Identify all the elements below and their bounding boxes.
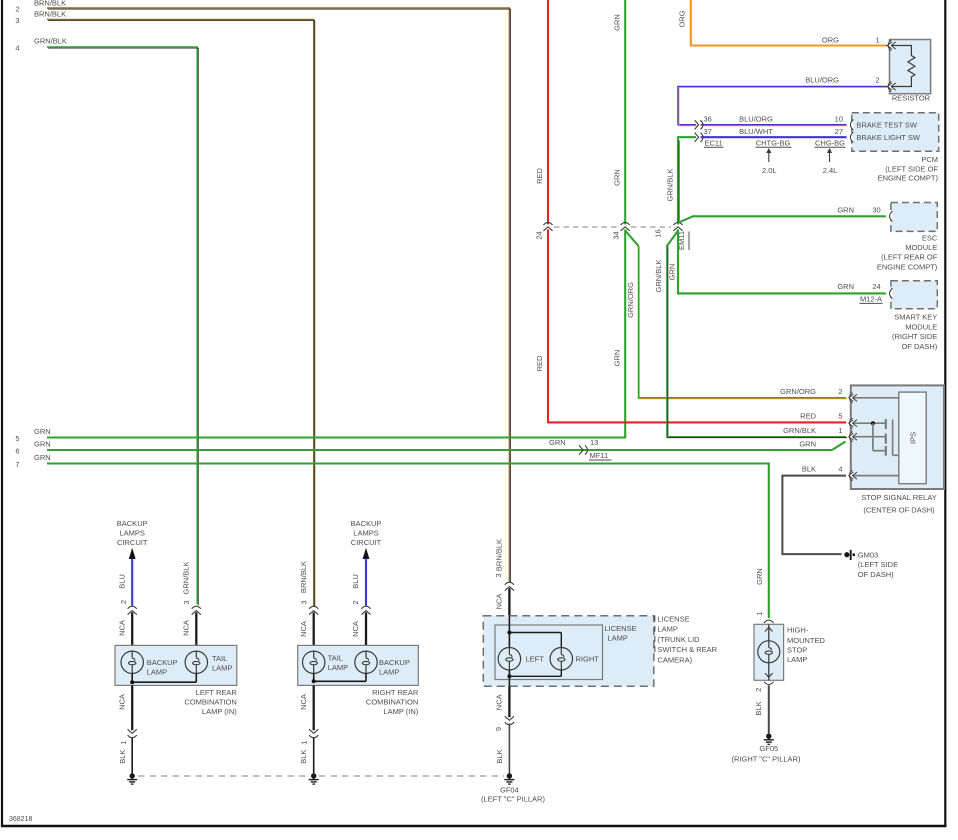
svg-text:LEFT: LEFT [526,654,545,663]
svg-text:9: 9 [494,727,503,731]
svg-text:GRN: GRN [34,453,51,462]
svg-text:LICENSE: LICENSE [605,624,637,633]
svg-text:GRN: GRN [34,427,51,436]
svg-text:NCA: NCA [299,621,308,637]
svg-text:GRN: GRN [612,350,621,367]
svg-text:3: 3 [182,600,191,604]
svg-text:RIGHT REAR: RIGHT REAR [372,688,419,697]
svg-text:BRN/BLK: BRN/BLK [34,10,66,19]
svg-text:2.4L: 2.4L [823,166,838,175]
svg-text:LAMPS: LAMPS [119,529,144,538]
svg-text:GF05: GF05 [759,744,778,753]
svg-text:LAMP: LAMP [787,655,807,664]
svg-text:LAMPS: LAMPS [353,529,378,538]
svg-text:RED: RED [535,168,544,184]
svg-text:EC11: EC11 [705,138,723,147]
svg-text:BLU: BLU [351,574,360,589]
svg-text:MODULE: MODULE [905,322,937,331]
svg-text:ENGINE COMPT): ENGINE COMPT) [877,262,938,271]
svg-text:MODULE: MODULE [905,243,937,252]
svg-text:GRN: GRN [549,438,566,447]
svg-text:NCA: NCA [117,620,126,636]
svg-text:NCA: NCA [299,694,308,710]
svg-text:GRN: GRN [612,14,621,31]
svg-text:NCA: NCA [495,694,504,710]
svg-text:BRN/BLK: BRN/BLK [495,539,504,571]
svg-text:1: 1 [755,611,764,615]
svg-text:GRN: GRN [755,568,764,585]
svg-text:BLU/ORG: BLU/ORG [805,76,839,85]
svg-text:IPS: IPS [909,432,918,444]
svg-text:CAMERA): CAMERA) [658,655,693,664]
svg-text:BLK: BLK [495,749,504,763]
svg-text:LAMP: LAMP [608,634,628,643]
svg-text:LEFT REAR: LEFT REAR [196,688,238,697]
svg-text:BLK: BLK [754,701,763,715]
svg-text:GRN/BLK: GRN/BLK [783,426,816,435]
svg-text:1: 1 [119,741,128,745]
svg-text:3: 3 [299,600,308,604]
svg-text:BLU/WHT: BLU/WHT [739,127,773,136]
svg-text:LAMP: LAMP [147,667,167,676]
svg-text:(LEFT "C" PILLAR): (LEFT "C" PILLAR) [481,794,545,803]
svg-text:2.0L: 2.0L [762,166,777,175]
svg-text:BLK: BLK [118,750,127,764]
svg-text:LICENSE: LICENSE [658,615,690,624]
svg-text:1: 1 [875,36,879,45]
svg-text:COMBINATION: COMBINATION [184,697,236,706]
svg-text:BACKUP: BACKUP [379,658,410,667]
svg-text:BRN/BLK: BRN/BLK [34,0,66,8]
svg-text:2: 2 [119,600,128,604]
svg-text:1: 1 [838,426,842,435]
svg-text:5: 5 [15,434,19,443]
svg-text:SWITCH & REAR: SWITCH & REAR [658,645,718,654]
svg-text:BRAKE TEST SW: BRAKE TEST SW [856,121,917,130]
svg-text:GRN: GRN [837,205,854,214]
svg-text:GRN/ORG: GRN/ORG [626,282,635,318]
svg-text:BACKUP: BACKUP [117,519,148,528]
svg-text:(LEFT SIDE: (LEFT SIDE [858,560,898,569]
svg-text:STOP SIGNAL RELAY: STOP SIGNAL RELAY [861,493,937,502]
svg-text:34: 34 [612,231,621,239]
svg-text:2: 2 [875,76,879,85]
svg-text:GRN/BLK: GRN/BLK [34,37,67,46]
svg-text:6: 6 [15,447,19,456]
svg-text:GRN/ORG: GRN/ORG [780,387,816,396]
svg-text:MF11: MF11 [590,451,609,460]
svg-text:TAIL: TAIL [328,653,343,662]
svg-text:STOP: STOP [787,646,807,655]
svg-text:4: 4 [15,44,19,53]
svg-text:ORG: ORG [822,36,839,45]
svg-text:TAIL: TAIL [212,654,227,663]
svg-text:2: 2 [15,5,19,14]
svg-text:30: 30 [872,205,880,214]
svg-text:BACKUP: BACKUP [351,519,382,528]
svg-text:27: 27 [835,127,843,136]
svg-text:LAMP (IN): LAMP (IN) [383,707,418,716]
svg-text:NCA: NCA [495,594,504,610]
svg-text:RED: RED [800,412,816,421]
svg-text:5: 5 [838,412,842,421]
svg-text:10: 10 [835,115,843,124]
svg-text:CIRCUIT: CIRCUIT [117,538,148,547]
svg-text:2: 2 [754,688,763,692]
svg-text:24: 24 [535,231,544,239]
svg-text:LAMP: LAMP [328,663,348,672]
svg-text:2: 2 [838,387,842,396]
svg-text:16: 16 [654,229,663,237]
svg-text:(RIGHT "C" PILLAR): (RIGHT "C" PILLAR) [732,755,801,764]
svg-text:ORG: ORG [678,10,687,27]
svg-text:LAMP (IN): LAMP (IN) [202,707,237,716]
svg-text:GM03: GM03 [858,551,878,560]
svg-text:1: 1 [299,741,308,745]
svg-text:M12-A: M12-A [860,294,882,303]
svg-text:BRN/BLK: BRN/BLK [299,561,308,593]
svg-text:2: 2 [351,600,360,604]
svg-text:RESISTOR: RESISTOR [892,94,931,103]
svg-text:(LEFT SIDE OF: (LEFT SIDE OF [885,164,938,173]
svg-text:368218: 368218 [9,816,32,823]
svg-text:CHG-BG: CHG-BG [815,138,845,147]
svg-text:(RIGHT SIDE: (RIGHT SIDE [892,332,937,341]
svg-text:(TRUNK LID: (TRUNK LID [658,635,701,644]
svg-text:RIGHT: RIGHT [576,654,600,663]
svg-text:BACKUP: BACKUP [147,658,178,667]
svg-text:BLU: BLU [117,574,126,589]
svg-text:ENGINE COMPT): ENGINE COMPT) [878,174,939,183]
svg-text:24: 24 [872,282,880,291]
svg-text:RED: RED [535,355,544,371]
svg-text:COMBINATION: COMBINATION [366,697,418,706]
svg-text:7: 7 [15,460,19,469]
svg-text:GRN: GRN [612,169,621,186]
svg-text:GRN: GRN [837,282,854,291]
svg-text:MOUNTED: MOUNTED [787,636,825,645]
svg-text:NCA: NCA [351,621,360,637]
svg-text:NCA: NCA [181,620,190,636]
svg-text:GRN/BLK: GRN/BLK [182,562,191,595]
svg-text:LAMP: LAMP [379,667,399,676]
svg-text:GRN/BLK: GRN/BLK [666,169,675,202]
svg-text:CHTG-BG: CHTG-BG [756,138,791,147]
svg-text:PCM: PCM [921,155,938,164]
svg-text:OF DASH): OF DASH) [858,570,894,579]
svg-text:NCA: NCA [117,694,126,710]
svg-text:CIRCUIT: CIRCUIT [351,538,382,547]
svg-text:13: 13 [590,438,598,447]
svg-text:36: 36 [704,115,712,124]
svg-text:GRN: GRN [799,440,816,449]
svg-text:(CENTER OF DASH): (CENTER OF DASH) [863,506,935,515]
svg-text:LAMP: LAMP [658,625,678,634]
svg-text:(LEFT REAR OF: (LEFT REAR OF [881,253,938,262]
svg-text:GRN/BLK: GRN/BLK [654,260,663,293]
svg-text:BLK: BLK [802,465,816,474]
svg-text:4: 4 [838,465,842,474]
svg-text:GF04: GF04 [500,786,519,795]
svg-text:BLK: BLK [299,750,308,764]
svg-text:SMART KEY: SMART KEY [894,313,937,322]
svg-text:GRN: GRN [668,264,677,281]
svg-text:HIGH-: HIGH- [787,626,809,635]
svg-text:BLU/ORG: BLU/ORG [739,115,773,124]
svg-text:BRAKE LIGHT SW: BRAKE LIGHT SW [856,133,921,142]
svg-text:OF DASH): OF DASH) [901,342,937,351]
svg-text:LAMP: LAMP [212,663,232,672]
svg-text:37: 37 [704,127,712,136]
svg-text:GRN: GRN [34,440,51,449]
svg-text:3: 3 [494,573,503,577]
svg-text:ESC: ESC [922,234,938,243]
svg-text:3: 3 [15,16,19,25]
